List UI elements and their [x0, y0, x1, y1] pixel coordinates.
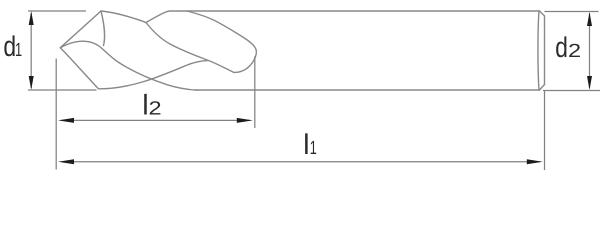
d2 arrowhead down — [587, 76, 592, 90]
wire: chamfer top diagonal — [540, 11, 545, 16]
wire: capsule lower edge from dip — [146, 23, 234, 73]
wire: capsule top edge and cap — [187, 11, 256, 72]
wire: shank end face — [544, 16, 546, 85]
wire: d1 top extension line — [28, 10, 86, 12]
wire: d1 arrow line — [30, 13, 32, 88]
label l1 — [305, 133, 308, 154]
wire: drill tip lower edge — [60, 48, 98, 89]
l1 arrowhead right — [527, 159, 543, 164]
wire: d2 top extension line — [545, 11, 599, 13]
label l2 — [144, 94, 147, 115]
d1 arrowhead up — [29, 11, 34, 25]
d1 arrowhead down — [29, 76, 34, 90]
wire: l2 dimension line — [62, 119, 250, 121]
wire: flute-2 heel rising curve — [99, 61, 209, 89]
wire: drill tip upper edge — [60, 11, 101, 48]
wire: d2 bottom extension line — [543, 90, 600, 92]
wire: capsule left cap rising from dip to top tangent — [146, 11, 170, 23]
wire: l1 dimension line — [62, 161, 541, 163]
d2 arrowhead up — [587, 12, 592, 26]
wire: lobe1 outer edge peak to dip — [101, 11, 146, 23]
wire: d1 bottom extension line — [28, 89, 97, 91]
wire: l2 right extension line — [254, 56, 256, 128]
wire: flute-1 face hook and land lower edge — [60, 41, 197, 90]
wire: left extension line for l1 l2 — [55, 59, 57, 170]
l2 arrowhead right — [237, 118, 253, 123]
wire: bottom line of body — [196, 89, 540, 91]
wire: l1 right extension line — [544, 91, 546, 170]
wire: chamfer bottom diagonal — [540, 85, 545, 91]
l1 arrowhead left — [58, 159, 74, 164]
wire: d2 arrow line — [589, 13, 591, 88]
label d2 — [556, 36, 566, 57]
wire: top line of body — [170, 10, 540, 12]
label d1 — [4, 35, 14, 56]
l2 arrowhead left — [58, 118, 74, 123]
wire: shank chamfer ellipse line — [538, 11, 539, 90]
wire: flute-1 face from peak — [101, 11, 105, 46]
